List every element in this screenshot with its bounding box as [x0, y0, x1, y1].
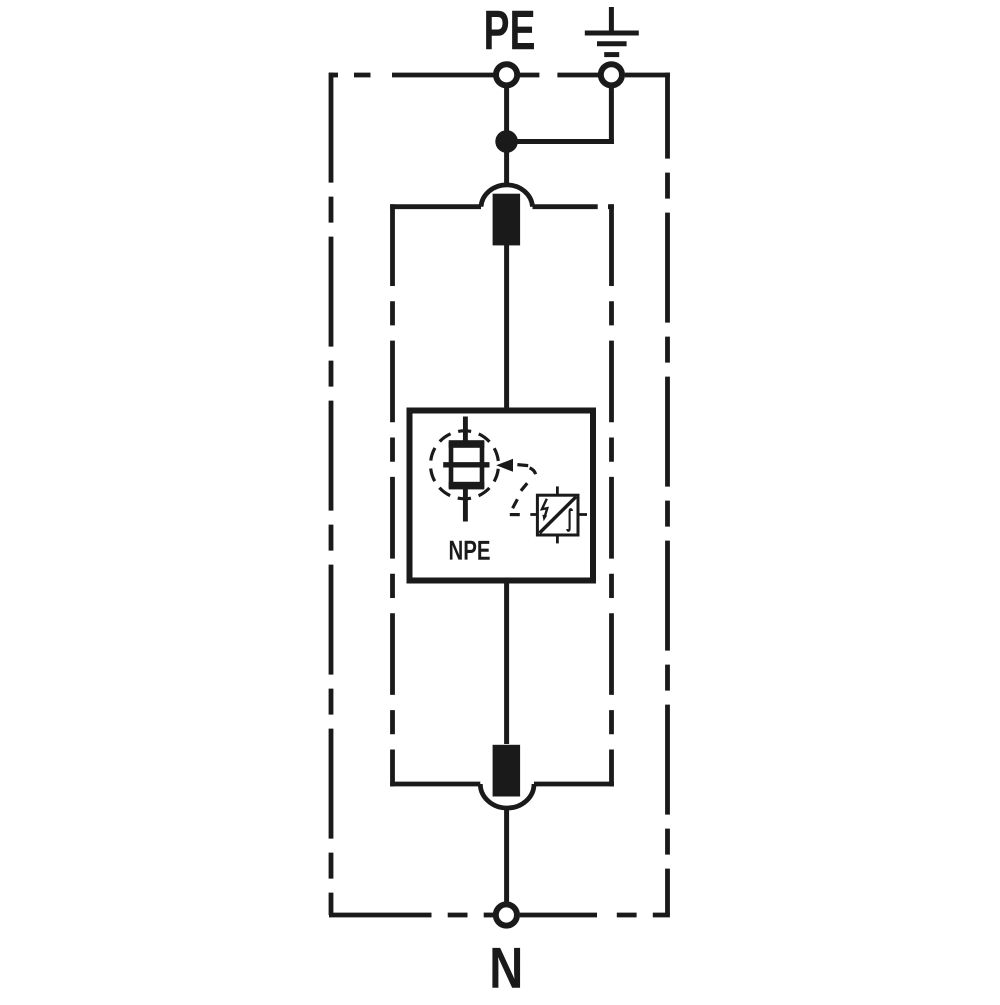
inner module dashed border: left: [390, 204, 395, 786]
integral glyph: [567, 509, 572, 531]
inner module dashed border: top with plug bump: [390, 185, 614, 207]
wire center box to bottom contact: [504, 583, 509, 744]
wire PE terminal down to junction and plug arc: [504, 80, 509, 184]
spark gap top lead: [463, 417, 468, 443]
plug contact blade top: [493, 194, 520, 246]
wire junction horizontal: [504, 139, 614, 144]
outer enclosure dashed border: right: [665, 73, 670, 915]
lightning bolt glyph: [542, 499, 547, 517]
outer enclosure dashed border: bottom: [329, 913, 670, 918]
spark gap bottom lead: [463, 488, 468, 522]
inner module dashed border: right: [609, 204, 614, 786]
wire bottom arc to N terminal: [504, 807, 509, 910]
dashed reference curve: [510, 465, 536, 515]
terminal ground: [601, 64, 622, 85]
spark gap electrode block: [449, 440, 485, 489]
combined wave symbol box: [537, 495, 578, 535]
svg-text:NPE: NPE: [448, 535, 490, 566]
spark gap middle electrode bar: [443, 462, 489, 467]
terminal N: [496, 904, 517, 925]
spark gap dashed circle: [431, 431, 499, 499]
outer enclosure dashed border: left: [329, 73, 334, 915]
wire ground terminal down: [609, 80, 614, 144]
junction node: [495, 130, 518, 153]
inner module dashed border: bottom with plug bump: [390, 784, 614, 808]
wire contact to center box: [504, 245, 509, 408]
combined wave diagonal: [540, 497, 577, 533]
svg-text:PE: PE: [483, 0, 535, 61]
svg-text:N: N: [489, 936, 523, 1000]
outer enclosure dashed border: top: [329, 73, 670, 78]
arrow pointing to spark gap: [496, 459, 513, 472]
ground symbol: [585, 7, 639, 55]
terminal PE: [496, 64, 517, 85]
center component box: [410, 411, 594, 581]
combined wave pins: [530, 486, 587, 543]
plug contact blade bottom: [493, 745, 520, 797]
